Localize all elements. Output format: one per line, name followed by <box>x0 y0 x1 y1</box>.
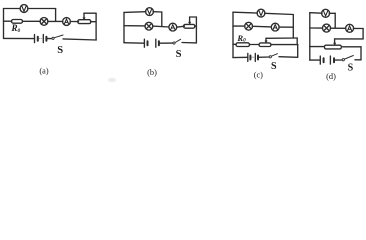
svg-text:(c): (c) <box>254 70 263 79</box>
svg-text:S: S <box>176 49 182 60</box>
wire: (b) switch to right rail <box>182 42 196 44</box>
wire: (b) voltmeter branch descent <box>161 12 163 26</box>
switch S (b) pivot <box>173 42 175 44</box>
battery (c) cell2 positive plate <box>254 53 256 61</box>
wire: (b) slider loop top <box>190 16 197 18</box>
wire: (d) slider wire <box>335 38 364 40</box>
rheostat R (b) body <box>184 24 195 28</box>
svg-text:S: S <box>348 63 354 74</box>
wire: (c) ammeter to right rail <box>279 26 293 28</box>
wire: (d) lamp to ammeter <box>330 27 345 29</box>
wire: (c) top wire left of voltmeter <box>233 11 257 14</box>
battery (b) cell2 negative plate <box>158 41 160 45</box>
voltmeter V (b) <box>146 8 154 16</box>
battery (b) cell2 positive plate <box>155 39 157 47</box>
svg-text:(d): (d) <box>326 72 336 81</box>
wire: (b) lamp to ammeter <box>153 25 170 28</box>
wire: (c) rheostat right terminal wire <box>271 44 298 46</box>
battery (b) cell1 negative plate <box>147 41 149 45</box>
wire: (a) middle row, R0 to lamp <box>23 20 41 22</box>
switch S (c) blade <box>271 54 277 57</box>
rheostat R (a) body <box>78 20 91 24</box>
rheostat R (d) body <box>325 45 342 49</box>
wire: (a) right rail <box>95 13 97 40</box>
wire: (b) lamp row, rail to lamp <box>124 25 145 27</box>
resistor R0 (a) <box>12 20 23 24</box>
wire: (a) middle row, lamp to junction <box>48 20 63 22</box>
voltmeter V (c) <box>257 9 265 17</box>
wire: (d) right rail upper <box>362 29 364 39</box>
wire: (b) top wire right of voltmeter <box>153 11 162 13</box>
rheostat R (a) slider arrow <box>83 13 85 18</box>
switch S (b) blade <box>175 39 181 42</box>
wire: (a) battery to switch <box>46 38 51 40</box>
wire: (d) switch to right rail <box>355 59 361 61</box>
svg-text:S: S <box>57 45 63 56</box>
wire: (d) left rail <box>309 13 311 60</box>
svg-text:R0: R0 <box>236 33 246 44</box>
wire: (a) top wire left of voltmeter <box>4 8 21 10</box>
wire: (c) right rail lower <box>297 45 299 58</box>
wire: (a) slider loop top <box>84 12 96 14</box>
wire: (b) battery to switch <box>159 42 173 44</box>
wire: (d) rheostat right terminal wire <box>343 46 362 48</box>
lamp L (c) <box>245 22 253 30</box>
ammeter A (d) <box>346 24 354 32</box>
switch S (d) pivot <box>342 59 344 61</box>
wire: (c) third row, rail to R0 <box>233 43 236 45</box>
wire: (d) ammeter to right rail <box>354 27 364 29</box>
battery (b) cell1 positive plate <box>143 39 145 47</box>
wire: (c) battery to switch <box>258 56 269 58</box>
wire: (c) R0 to rheostat <box>250 44 260 46</box>
battery (d) cell2 negative plate <box>333 58 335 62</box>
battery (a) cell2 positive plate <box>42 35 44 43</box>
node: scan specks between battery cells (c) <box>252 57 253 58</box>
wire: (a) rheostat right terminal to rail <box>91 21 97 23</box>
lamp L (b) <box>145 22 153 30</box>
wire: (c) switch to right rail <box>279 56 298 59</box>
wire: (d) voltmeter branch descent <box>334 13 336 28</box>
switch S (a) blade <box>54 35 63 38</box>
ammeter A (c) <box>271 23 279 31</box>
wire: (c) lamp row, rail to lamp <box>233 25 245 27</box>
wire: (d) top wire left of voltmeter <box>310 12 322 15</box>
battery (c) cell1 positive plate <box>247 53 249 61</box>
ammeter A (a) <box>63 18 71 26</box>
wire: (b) bottom, rail to battery <box>124 42 144 45</box>
wire: (c) slider wire drop to rheostat right wire <box>296 38 298 45</box>
wire: (b) top wire left of voltmeter <box>124 11 146 14</box>
battery (a) cell1 negative plate <box>37 37 39 41</box>
battery (c) cell1 negative plate <box>249 56 251 60</box>
wire: (c) top wire right of voltmeter <box>265 13 294 14</box>
wire: (b) ammeter to rheostat <box>177 26 185 27</box>
voltmeter V (a) <box>20 5 28 13</box>
battery (d) cell1 positive plate <box>319 56 321 64</box>
svg-text:(b): (b) <box>147 68 157 77</box>
battery (c) cell2 negative plate <box>257 56 259 60</box>
wire: (a) bottom, rail to battery <box>4 37 35 39</box>
lamp L (d) <box>323 24 331 32</box>
svg-text:(a): (a) <box>39 66 48 75</box>
voltmeter V (d) <box>322 9 330 17</box>
svg-text:S: S <box>271 61 277 72</box>
battery (d) cell1 negative plate <box>323 58 325 62</box>
battery (a) cell1 positive plate <box>34 35 36 43</box>
rheostat R (b) slider arrow <box>189 17 191 23</box>
wire: (d) battery to switch <box>334 59 342 61</box>
node: scan specks between battery cells (a) <box>39 38 40 39</box>
switch S (a) pivot <box>52 37 54 39</box>
wire: (a) top wire right of voltmeter <box>28 8 56 10</box>
rheostat R (d) slider arrow <box>334 39 336 44</box>
wire: (c) slider wire <box>266 37 297 39</box>
wire: (d) rail to rheostat left terminal <box>310 46 324 48</box>
wire: (a) middle row, rail to R0 <box>4 20 12 22</box>
wire: (c) lamp to ammeter <box>252 25 271 28</box>
wire: (a) voltmeter branch descent <box>55 9 57 22</box>
rheostat R (c) slider arrow <box>265 38 267 41</box>
wire: (a) switch to right rail <box>63 39 96 40</box>
wire: (d) bottom, rail to battery <box>310 59 321 61</box>
wire: (c) right rail upper <box>292 15 294 39</box>
switch S (c) pivot <box>269 56 271 58</box>
wire: (a) middle row, ammeter to rheostat <box>70 21 78 23</box>
switch S (d) blade <box>344 56 353 60</box>
battery (a) cell2 negative plate <box>45 37 47 41</box>
wire: (b) left rail <box>123 12 125 42</box>
wire: (d) lamp row, rail to lamp <box>310 27 323 29</box>
wire: (d) right rail lower <box>360 47 362 60</box>
wire: (a) left rail <box>3 9 5 39</box>
lamp L (a) <box>40 18 48 26</box>
wire: (c) bottom, rail to battery <box>233 56 248 58</box>
wire: (b) right rail <box>195 17 197 43</box>
resistor R0 (c) <box>236 43 250 47</box>
battery (d) cell2 positive plate <box>329 56 331 64</box>
rheostat R (c) body <box>259 43 271 47</box>
ammeter A (b) <box>169 23 177 31</box>
wire: (d) top wire right of voltmeter <box>329 12 335 14</box>
node: faint scan smudge bottom-left of (b) <box>108 78 116 82</box>
svg-text:R0: R0 <box>11 23 21 34</box>
wire: (b) rheostat right terminal to rail <box>195 25 197 27</box>
wire: (c) left rail <box>232 12 234 57</box>
